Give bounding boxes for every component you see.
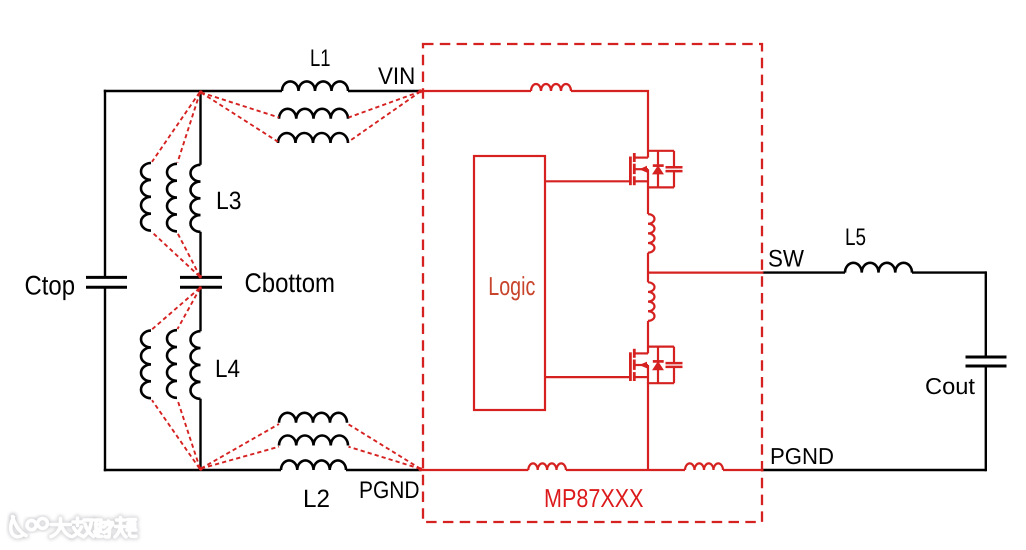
svg-text:VIN: VIN bbox=[378, 63, 415, 90]
wire left vertical bottom (Ctop to PGND rail) bbox=[104, 287, 106, 471]
coupling node A to L3 w3 bbox=[152, 93, 200, 162]
capacitor Cbottom plate 2 bbox=[180, 286, 222, 289]
coupling node B to L2 w3 bbox=[201, 424, 279, 469]
wire VIN red segment 1 bbox=[420, 90, 531, 92]
node A junction dot bbox=[199, 90, 203, 94]
svg-text:MP87XXX: MP87XXX bbox=[544, 483, 644, 513]
inductor L3 winding 2 bbox=[167, 164, 177, 232]
node PGND junction dot bbox=[418, 467, 422, 471]
transistor Q1 high-side MOSFET bbox=[630, 151, 682, 188]
coupling node A to L1 w2 bbox=[201, 93, 279, 118]
inductor L4 winding 1 bbox=[191, 331, 201, 399]
wire PGND red segment 3 bbox=[723, 469, 764, 471]
svg-text:L2: L2 bbox=[303, 485, 330, 513]
inductor L2 winding 1 bbox=[281, 460, 346, 470]
svg-text:SW: SW bbox=[768, 245, 804, 272]
parasitic inductor PGND bond 1 bbox=[528, 463, 566, 470]
inductor L3 winding 1 bbox=[191, 165, 201, 232]
capacitor Cout plate 1 bbox=[966, 356, 1007, 359]
wire bottom right PGND segment bbox=[763, 469, 987, 471]
capacitor Cbottom plate 1 bbox=[180, 276, 222, 279]
node B junction dot bbox=[199, 467, 203, 471]
wire PGND red segment 2 bbox=[566, 469, 685, 471]
svg-text:Cbottom: Cbottom bbox=[245, 268, 336, 298]
coupling VIN node to L1 w3 bbox=[349, 92, 421, 142]
coupling node B to L4 w3 bbox=[152, 400, 200, 468]
capacitor Ctop plate 1 bbox=[86, 276, 127, 279]
coupling Cbottom to L3 w3 bbox=[152, 232, 200, 276]
wire left vertical top (VIN rail to Ctop) bbox=[104, 90, 106, 278]
wire Cout to PGND corner bbox=[985, 366, 987, 471]
inductor L1 winding 3 bbox=[278, 133, 348, 143]
wire SW red bbox=[647, 272, 764, 274]
inductor L4 winding 3 bbox=[141, 331, 151, 399]
wire output vertical to Cout bbox=[985, 271, 987, 356]
wire PGND red segment 1 bbox=[420, 469, 528, 471]
coupling Cbottom to L4 w3 bbox=[152, 288, 200, 329]
svg-text:PGND: PGND bbox=[770, 443, 834, 469]
logic block U1 bbox=[474, 156, 545, 410]
wire top VIN rail left segment bbox=[104, 90, 282, 92]
wire coil to SW bbox=[647, 253, 649, 283]
wire SW to L5 bbox=[763, 271, 846, 273]
coupling Cbottom to L4 w2 bbox=[178, 288, 201, 329]
coupling PGND node to L2 w3 bbox=[348, 424, 421, 469]
capacitor Ctop plate 2 bbox=[86, 286, 127, 289]
coupling node A to L3 w2 bbox=[178, 93, 201, 163]
inductor L2 winding 2 bbox=[279, 436, 348, 446]
wire VIN red segment 2 bbox=[571, 91, 649, 151]
inductor L3 winding 3 bbox=[141, 163, 151, 231]
wire HS source to coil bbox=[647, 187, 649, 215]
parasitic inductor PGND bond 2 bbox=[685, 463, 723, 470]
wire node A to L3 top bbox=[199, 91, 201, 165]
wire LS source to PGND bbox=[647, 382, 649, 470]
coupling PGND node to L2 w2 bbox=[349, 447, 421, 469]
coupling node B to L2 w2 bbox=[201, 447, 279, 469]
wire L4 bottom to PGND rail bbox=[199, 399, 201, 470]
svg-text:L4: L4 bbox=[215, 355, 240, 383]
parasitic inductor VIN bond bbox=[531, 84, 571, 91]
wire bottom PGND rail left segment bbox=[104, 469, 281, 471]
wire top VIN rail right segment bbox=[348, 90, 422, 92]
wire L3 bottom to Cbottom bbox=[199, 232, 201, 278]
node Cbottom bottom junction dot bbox=[199, 286, 202, 289]
parasitic inductor LS drain bbox=[648, 282, 655, 321]
inductor L1 winding 1 bbox=[282, 81, 348, 91]
svg-text:Logic: Logic bbox=[488, 271, 535, 301]
wire L5 to output corner bbox=[912, 271, 986, 273]
watermark logo and text bbox=[11, 517, 136, 537]
inductor L1 winding 2 bbox=[279, 109, 348, 119]
coupling VIN node to L1 w2 bbox=[349, 92, 421, 118]
node VIN junction dot bbox=[418, 89, 422, 93]
svg-text:PGND: PGND bbox=[359, 477, 420, 504]
wire bottom PGND rail right segment bbox=[346, 469, 422, 471]
svg-text:L5: L5 bbox=[845, 224, 866, 251]
gate wire high-side bbox=[545, 180, 630, 182]
capacitor Cout plate 2 bbox=[966, 365, 1007, 368]
coupling node A to L1 w3 bbox=[201, 93, 278, 142]
transistor Q2 low-side MOSFET bbox=[630, 347, 682, 384]
wire coil to LS drain bbox=[647, 321, 649, 348]
wire Cbottom to L4 top bbox=[199, 287, 201, 331]
svg-text:L1: L1 bbox=[310, 45, 331, 72]
svg-text:Ctop: Ctop bbox=[25, 270, 76, 300]
inductor L5 bbox=[845, 263, 912, 273]
coupling node B to L4 w2 bbox=[178, 400, 201, 469]
inductor L2 winding 3 bbox=[279, 413, 347, 423]
svg-text:Cout: Cout bbox=[925, 373, 976, 399]
coupling Cbottom to L3 w2 bbox=[178, 233, 201, 276]
IC boundary dashed box MP87XXX bbox=[423, 44, 762, 522]
inductor L4 winding 2 bbox=[167, 330, 177, 398]
node Cbottom top junction dot bbox=[199, 275, 202, 278]
gate wire low-side bbox=[545, 376, 630, 378]
parasitic inductor HS source bbox=[648, 214, 655, 253]
svg-text:L3: L3 bbox=[216, 187, 242, 215]
